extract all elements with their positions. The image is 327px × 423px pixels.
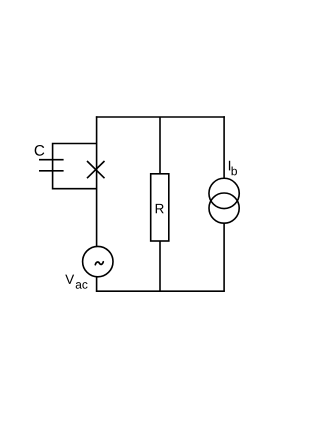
wire right vertical upper	[223, 116, 225, 178]
label C	[35, 145, 45, 156]
label tilde inside Vac	[95, 262, 103, 265]
ac voltage source Vac	[83, 246, 113, 276]
wire bottom horizontal	[96, 290, 225, 292]
wire left vertical (top wire to Vac source)	[96, 116, 98, 246]
label Ib	[229, 161, 230, 171]
wire capacitor loop box	[53, 144, 97, 189]
capacitor C plates	[39, 160, 64, 171]
wire middle vertical lower	[159, 241, 161, 291]
label R	[156, 204, 164, 213]
current source Ib (two overlapping circles)	[209, 178, 239, 223]
wire Vac to bottom wire	[96, 277, 98, 292]
label Vac	[65, 275, 74, 284]
Josephson junction X	[87, 161, 105, 178]
wire top horizontal	[96, 116, 225, 118]
wire right vertical lower	[223, 223, 225, 291]
resistor R body	[151, 174, 169, 241]
wire middle vertical upper	[159, 117, 161, 174]
